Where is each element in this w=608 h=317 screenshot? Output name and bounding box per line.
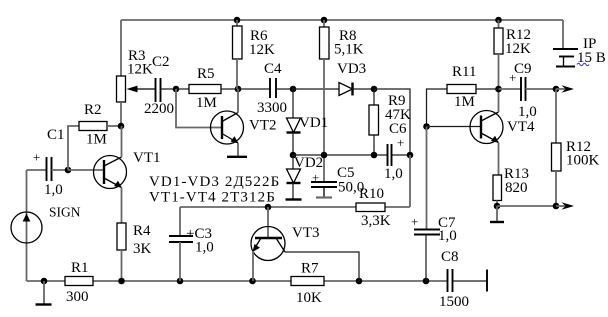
node: junction dot VD3/R9: [371, 86, 378, 93]
node: junction dot R6 top: [234, 17, 241, 24]
svg-text:+: +: [397, 135, 404, 150]
terminal after C8: [486, 270, 488, 292]
wire: C4 node to VD3 anode: [293, 88, 339, 90]
node: junction dot R9 bottom: [371, 152, 378, 159]
diode VD1: [287, 89, 329, 155]
node: junction dot C3 bottom: [177, 278, 184, 285]
resistor R7 10K: [291, 261, 324, 307]
wire: bottom ground rail: [27, 280, 448, 282]
svg-text:R11: R11: [452, 64, 476, 80]
wire: left drop from rail to R3: [120, 20, 122, 76]
svg-text:C4: C4: [264, 61, 282, 77]
svg-text:VD1-VD3 2Д522Б: VD1-VD3 2Д522Б: [149, 174, 280, 190]
node: junction dot C2/R5/VT2-base: [173, 86, 180, 93]
output arrow 1: [556, 85, 574, 93]
resistor R12 100K (right): [552, 89, 600, 206]
svg-text:1,0: 1,0: [438, 228, 457, 244]
svg-text:VT1: VT1: [133, 150, 161, 166]
svg-text:C6: C6: [389, 121, 407, 137]
node: junction dot R8 top: [321, 17, 328, 24]
ground: VT2 emitter: [227, 156, 247, 158]
transistor VT4: [470, 89, 535, 175]
wire: +15V top rail: [121, 19, 563, 21]
resistor R2 1M: [68, 102, 121, 170]
node: junction dot R2/R3/VT1-collector: [118, 123, 125, 130]
node: junction dot output 2: [553, 203, 560, 210]
svg-text:1,0: 1,0: [518, 104, 537, 120]
wire: output 2 line: [497, 205, 556, 207]
svg-text:1M: 1M: [86, 132, 107, 148]
wire: rail after C8: [453, 280, 488, 282]
node: junction dot C7 bottom: [423, 278, 430, 285]
svg-text:R4: R4: [133, 223, 151, 239]
svg-text:12K: 12K: [249, 42, 275, 58]
potentiometer R3 12K: [117, 48, 154, 126]
wire: mid node rail: [293, 154, 410, 156]
svg-text:R5: R5: [197, 66, 215, 82]
battery IP 15V: [553, 36, 606, 67]
capacitor C5 50,0: [311, 165, 364, 197]
wire: VT4 base: [427, 126, 482, 128]
svg-text:VD2: VD2: [294, 155, 323, 171]
wire: VT3 collector bypass to rail: [285, 252, 359, 281]
transistor VT1: [68, 126, 161, 223]
svg-text:100K: 100K: [566, 153, 600, 169]
svg-text:R1: R1: [71, 260, 89, 276]
svg-text:3,3K: 3,3K: [361, 213, 391, 229]
node: junction dot output 1: [553, 86, 560, 93]
svg-text:VT4: VT4: [507, 119, 535, 135]
svg-text:+: +: [411, 214, 418, 229]
svg-text:C9: C9: [514, 61, 532, 77]
svg-text:R10: R10: [359, 186, 384, 202]
svg-text:820: 820: [505, 180, 528, 196]
svg-text:2200: 2200: [144, 101, 174, 117]
ground: VD2: [286, 198, 302, 200]
node: junction dot C5 top: [321, 152, 328, 159]
resistor R13 820: [493, 166, 529, 206]
capacitor C4 3300: [238, 61, 293, 116]
svg-text:12K: 12K: [505, 41, 531, 57]
resistor R12b 12K (top): [494, 20, 531, 89]
ground: R13: [490, 206, 504, 222]
svg-text:1500: 1500: [439, 294, 469, 310]
resistor R6 12K: [233, 20, 276, 89]
transistor VT3: [251, 207, 320, 281]
svg-text:3300: 3300: [257, 100, 287, 116]
svg-text:R2: R2: [84, 102, 102, 118]
output arrow 2: [556, 202, 574, 210]
svg-text:15 В: 15 В: [577, 50, 606, 66]
svg-text:SIGN: SIGN: [49, 205, 81, 220]
capacitor C7 1,0: [411, 127, 457, 282]
node: junction dot VT4 base: [423, 123, 430, 130]
wire: VD3 node to C6-right corner: [374, 89, 410, 155]
signal source SIGN: [11, 170, 81, 281]
wire: lower node rail with R10: [180, 155, 410, 207]
capacitor C9 1,0: [499, 61, 557, 120]
ground: bottom-left: [36, 281, 52, 305]
capacitor C2 2200: [144, 54, 176, 117]
diode VD2: [287, 155, 324, 199]
resistor R8 5,1K: [320, 20, 364, 182]
capacitor C8 1500: [439, 249, 469, 310]
diode VD3: [337, 61, 374, 96]
capacitor C3 1,0: [169, 207, 214, 281]
svg-text:R7: R7: [301, 261, 319, 277]
svg-text:VD1: VD1: [299, 115, 328, 131]
svg-text:1,0: 1,0: [195, 240, 214, 256]
node: junction dot VT3 emitter: [249, 278, 256, 285]
resistor R5 1M: [176, 66, 238, 111]
svg-text:C1: C1: [47, 127, 65, 143]
svg-text:300: 300: [66, 289, 89, 305]
node: junction dot VD1/VD2: [290, 152, 297, 159]
wire: VT2 base link from C2 node: [176, 89, 222, 128]
svg-text:VT1-VT4 2Т312Б: VT1-VT4 2Т312Б: [149, 190, 276, 206]
wire: battery drop: [562, 20, 564, 49]
svg-text:12K: 12K: [127, 62, 153, 78]
transistor VT2: [211, 89, 277, 156]
node: junction dot C6 right: [407, 152, 414, 159]
svg-text:C8: C8: [441, 249, 459, 265]
node: junction dot VT3 base: [265, 204, 272, 211]
node: junction dot C4/VD1: [290, 86, 297, 93]
svg-text:10K: 10K: [296, 290, 322, 306]
node: junction dot R13 bottom: [494, 203, 501, 210]
capacitor C6 1,0: [384, 121, 407, 182]
node: junction dot VT4 collector / C9: [495, 86, 502, 93]
svg-text:1,0: 1,0: [384, 166, 403, 182]
svg-text:+: +: [312, 170, 319, 185]
node: junction dot R7 bypass: [356, 278, 363, 285]
ground: C5: [316, 196, 332, 198]
svg-text:VT2: VT2: [249, 118, 277, 134]
wiper arrow from C2 to R3: [127, 86, 156, 93]
svg-text:5,1K: 5,1K: [334, 42, 364, 58]
resistor R1 300: [65, 260, 93, 305]
svg-text:3K: 3K: [133, 241, 152, 257]
resistor R9 47K: [369, 89, 411, 155]
svg-text:C2: C2: [152, 54, 170, 70]
capacitor C1 1,0: [27, 127, 69, 198]
resistor R4 3K: [117, 223, 152, 281]
svg-text:VD3: VD3: [337, 61, 366, 77]
svg-text:1M: 1M: [454, 94, 475, 110]
svg-text:1,0: 1,0: [44, 182, 63, 198]
node: junction dot R4 bottom: [118, 278, 125, 285]
node: junction dot C1/R2/VT1-base: [65, 167, 72, 174]
node: junction dot R12 top: [495, 17, 502, 24]
node: junction dot ground stem: [41, 278, 48, 285]
resistor R10 3,3K: [356, 186, 391, 229]
node: junction dot R5/R6/C4/VT2-collector: [235, 86, 242, 93]
svg-text:1M: 1M: [196, 95, 217, 111]
svg-text:VT3: VT3: [292, 225, 320, 241]
svg-text:+: +: [33, 150, 40, 165]
resistor R11 1M: [427, 64, 499, 127]
